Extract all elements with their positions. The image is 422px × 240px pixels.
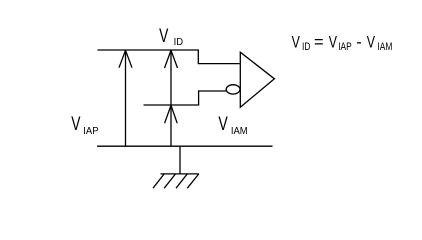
svg-text:-: - [356, 33, 362, 51]
svg-text:V: V [329, 34, 337, 52]
ground [179, 146, 181, 174]
svg-text:V: V [367, 34, 375, 52]
svg-text:IAM: IAM [231, 126, 248, 138]
svg-text:IAP: IAP [338, 41, 352, 53]
wire top rail to op-amp noninverting input [98, 50, 240, 64]
svg-text:V: V [218, 113, 228, 135]
svg-text:V: V [292, 34, 300, 52]
op-amp U1 [240, 52, 274, 107]
inverting input bubble [226, 85, 240, 94]
wire bottom rail (reference rail) [97, 145, 273, 147]
wire V_IAP arrow line [125, 50, 127, 146]
svg-text:IAP: IAP [83, 126, 99, 138]
svg-text:ID: ID [174, 37, 183, 49]
wire mid rail to inverting input bubble [144, 91, 227, 105]
svg-text:IAM: IAM [377, 41, 392, 53]
svg-text:=: = [314, 33, 324, 51]
svg-text:ID: ID [302, 41, 310, 53]
svg-text:V: V [159, 25, 169, 47]
svg-text:V: V [71, 113, 81, 135]
wire V_IAM arrow line [170, 50, 172, 146]
